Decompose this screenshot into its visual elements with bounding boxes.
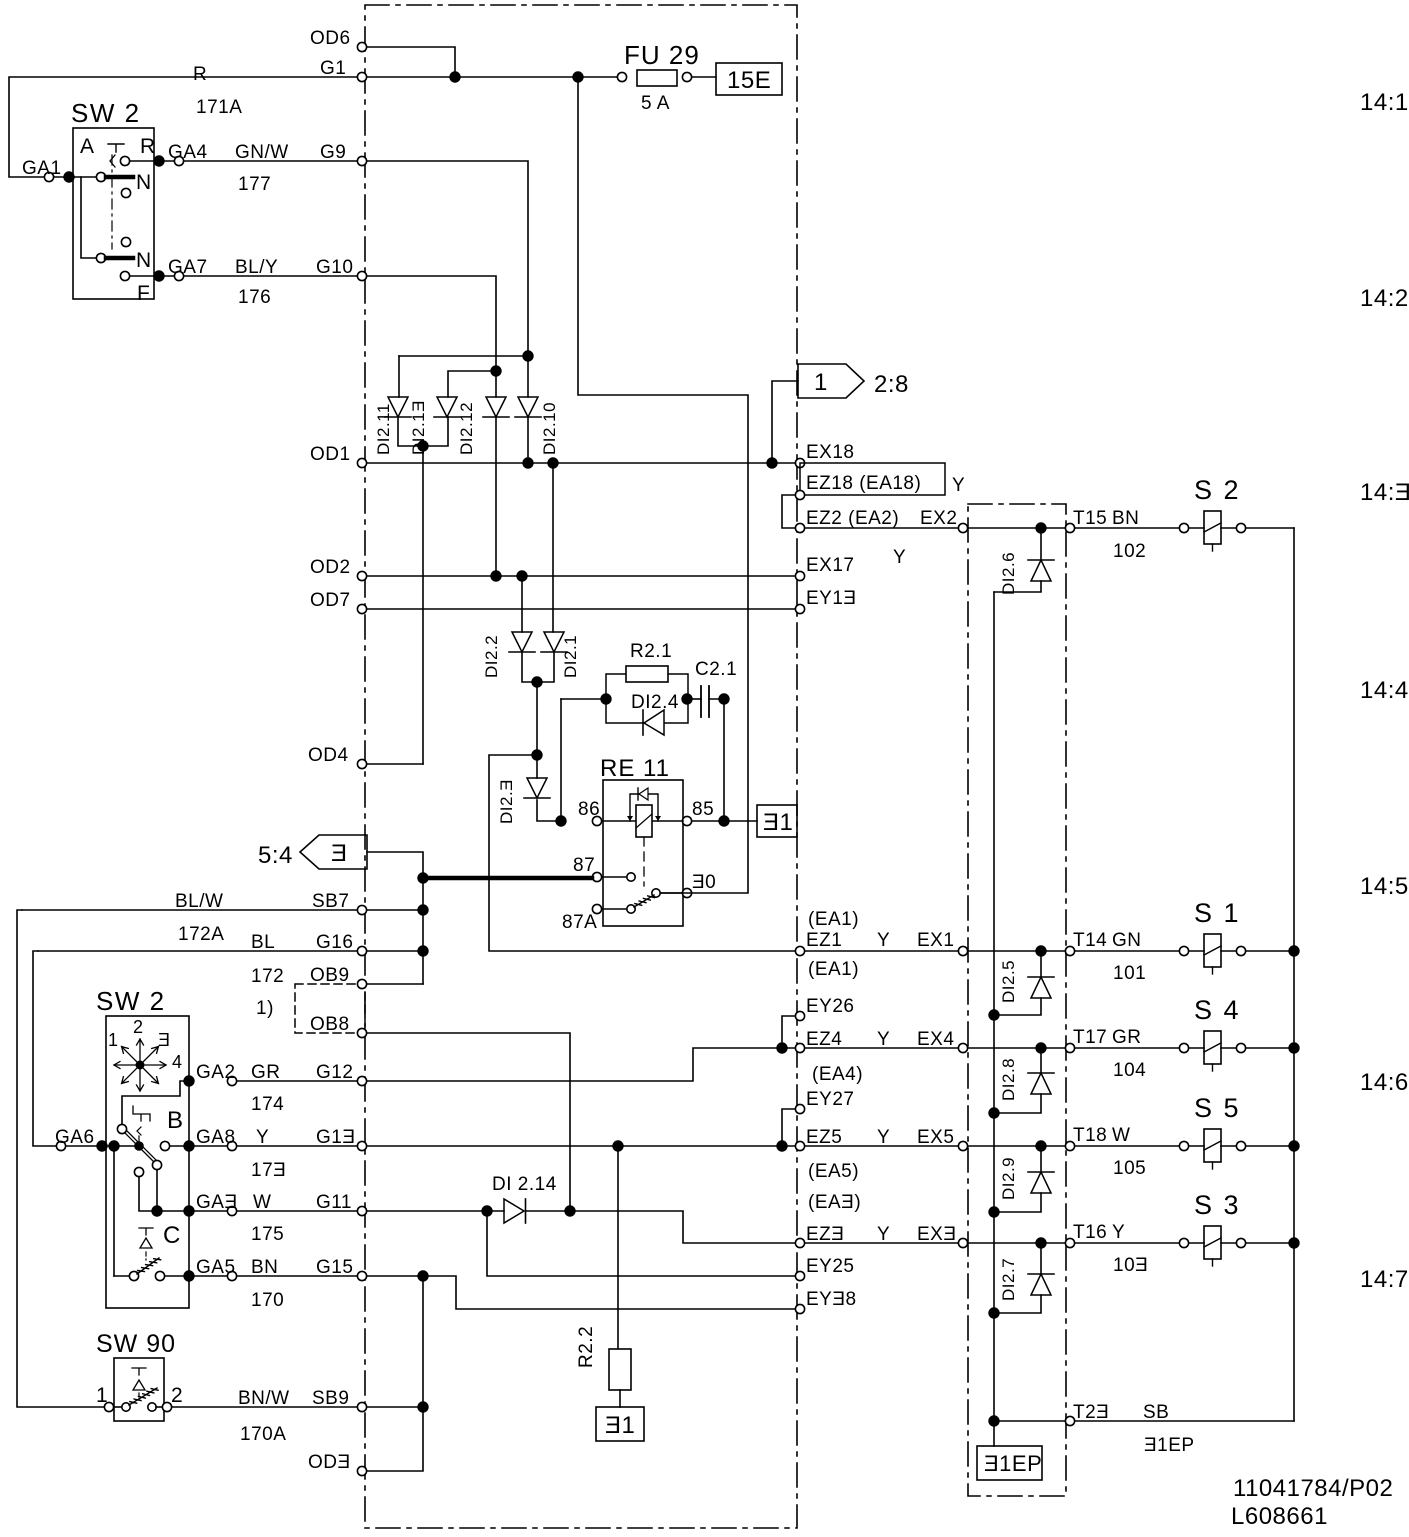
- SW2 B lever double line: [125, 1131, 157, 1163]
- solenoid S2 coil: [1204, 511, 1221, 544]
- terminal T15: [1065, 523, 1074, 532]
- wire S2 coil left lead: [1189, 527, 1204, 529]
- terminal EZ4: [795, 1043, 804, 1052]
- SW2 C thermal symbol: [139, 1228, 153, 1235]
- junction G13 R2.2 drop: [612, 1140, 623, 1151]
- svg-text:T15: T15: [1073, 508, 1107, 529]
- terminal GA1: [44, 172, 53, 181]
- wire S4 coil left lead: [1189, 1047, 1204, 1049]
- terminal GA6: [56, 1141, 65, 1150]
- wire branch to DI2.11: [399, 355, 528, 357]
- SW90 terminal 2: [162, 1402, 171, 1411]
- junction OD2/DI2.12: [490, 570, 501, 581]
- svg-text:BN/W: BN/W: [238, 1388, 290, 1409]
- wire G16 to bus: [367, 950, 418, 952]
- off-page flag 3 from 5:4: [300, 835, 367, 869]
- SW2 detent symbol: [108, 144, 124, 152]
- svg-text:T18: T18: [1073, 1125, 1107, 1146]
- wire S5 to return bus: [1246, 1145, 1294, 1147]
- svg-text:GR: GR: [1112, 1027, 1142, 1048]
- wire OD7 to EY13: [367, 608, 795, 610]
- wire SB9/OD3 riser: [367, 1276, 423, 1471]
- svg-text:OD7: OD7: [310, 590, 351, 611]
- svg-text:2:8: 2:8: [874, 371, 909, 398]
- SW90 fixed contact: [148, 1403, 156, 1411]
- svg-text:EX2: EX2: [920, 508, 957, 529]
- terminal SB7: [357, 905, 366, 914]
- wire R 171A from G1 to GA1: [9, 77, 357, 177]
- svg-text:87A: 87A: [562, 912, 597, 933]
- SW2 arrow: [110, 155, 115, 167]
- svg-text:11041784/P02: 11041784/P02: [1233, 1475, 1393, 1502]
- switch SW90 body: [114, 1358, 164, 1421]
- svg-text:(EA1): (EA1): [808, 959, 859, 980]
- wire 172A down to SW90: [17, 910, 104, 1407]
- junction RC cluster right: [681, 693, 692, 704]
- svg-text:EX18: EX18: [806, 442, 854, 463]
- junction 86 node: [555, 815, 566, 826]
- svg-text:A: A: [80, 135, 95, 158]
- relay actuator dashed link: [643, 837, 645, 886]
- svg-text:EXƎ: EXƎ: [917, 1224, 957, 1245]
- wire DI2.3 cathode to 86 node: [537, 800, 556, 821]
- junction return bus S4: [1288, 1042, 1299, 1053]
- relay RE11 body: [603, 780, 683, 926]
- SW2 B detent symbol: [133, 1106, 150, 1121]
- wire flag 1 tap: [772, 381, 798, 463]
- svg-text:Y: Y: [877, 1029, 890, 1050]
- svg-text:4: 4: [172, 1052, 183, 1072]
- SW2 internal wire GA1 to upper lever: [74, 176, 96, 178]
- SW90 internal wire: [114, 1406, 121, 1408]
- wire G16 external BL 172: [38, 950, 357, 952]
- wire EX to T S1: [968, 950, 1065, 952]
- diode DI 2.14: [504, 1199, 524, 1223]
- wire SB7 external BL/W 172A: [22, 909, 357, 911]
- svg-text:14:4: 14:4: [1360, 677, 1409, 704]
- svg-text:SB: SB: [1143, 1402, 1169, 1423]
- svg-text:EZ4: EZ4: [806, 1029, 842, 1050]
- fuse FU29 left terminal: [617, 72, 626, 81]
- svg-text:14:1: 14:1: [1360, 89, 1409, 116]
- svg-text:14:6: 14:6: [1360, 1069, 1409, 1096]
- svg-text:N: N: [136, 171, 152, 194]
- terminal EZ18: [795, 490, 804, 499]
- svg-text:DI2.11: DI2.11: [374, 403, 393, 455]
- solenoid S1 right terminal: [1236, 946, 1245, 955]
- junction bus SB7: [417, 904, 428, 915]
- wire DI2.6 cathode to bus: [994, 581, 1041, 592]
- supply box 15E: [716, 63, 782, 95]
- SW2 lever pivot upper: [96, 172, 105, 181]
- SW2 internal wire R to GA4: [130, 160, 174, 162]
- solenoid S5 left terminal: [1179, 1141, 1188, 1150]
- diode DI2.5: [1031, 977, 1051, 998]
- wire S4 coil right lead: [1221, 1047, 1236, 1049]
- junction GA2 at box edge: [183, 1075, 194, 1086]
- wire DI2.2/DI2.1 cathode loop: [522, 652, 554, 682]
- svg-text:BL/Y: BL/Y: [235, 257, 278, 278]
- wire G11 to DI2.14: [367, 1210, 504, 1212]
- wire EX to T S5: [968, 1145, 1065, 1147]
- svg-text:EZ2 (EA2): EZ2 (EA2): [806, 508, 899, 529]
- rotary position star: [114, 1039, 166, 1091]
- wire R2.2 to ground box: [619, 1390, 621, 1407]
- terminal EZ2: [795, 523, 804, 532]
- junction bus 87 feed: [417, 872, 428, 883]
- wire S1 to return bus: [1246, 950, 1294, 952]
- svg-text:172: 172: [251, 966, 284, 987]
- svg-text:GN/W: GN/W: [235, 142, 289, 163]
- wire S4 to return bus: [1246, 1047, 1294, 1049]
- wire T to solenoid S5: [1075, 1145, 1179, 1147]
- wire B lower contact down: [139, 1177, 152, 1211]
- svg-text:Ǝ1EP: Ǝ1EP: [984, 1451, 1042, 1476]
- svg-text:GN: GN: [1112, 930, 1142, 951]
- svg-text:EY25: EY25: [806, 1256, 854, 1277]
- relay terminal 87: [592, 872, 601, 881]
- diode DI2.7 leads: [994, 1243, 1041, 1313]
- wire DI2.6 anode lead: [1040, 533, 1042, 560]
- terminal EX S1: [958, 946, 967, 955]
- wire R2.2 drop: [617, 1146, 619, 1349]
- wire EY25 branch: [487, 1211, 795, 1276]
- wire EY26 jog: [782, 1016, 795, 1043]
- diode DI2.8: [1031, 1073, 1051, 1094]
- svg-text:171A: 171A: [196, 97, 242, 118]
- junction GA3 at box edge: [183, 1205, 194, 1216]
- svg-text:EX4: EX4: [917, 1029, 954, 1050]
- terminal G12: [357, 1076, 366, 1085]
- wire 86 node drop: [560, 699, 562, 816]
- junction DI2.6 tap: [1035, 522, 1046, 533]
- svg-text:BN: BN: [1112, 508, 1139, 529]
- svg-text:14:2: 14:2: [1360, 285, 1409, 312]
- wire T to solenoid S3: [1075, 1242, 1179, 1244]
- svg-text:SB9: SB9: [312, 1388, 349, 1409]
- junction ground bus DI2.5: [988, 1009, 999, 1020]
- wire B lever end down: [156, 1170, 158, 1211]
- junction G9 drop DI2.11 branch: [522, 350, 533, 361]
- svg-text:DI2.Ǝ: DI2.Ǝ: [497, 779, 516, 824]
- svg-text:G15: G15: [316, 1257, 353, 1278]
- wire W 175 GA3 to G11: [237, 1210, 357, 1212]
- wire branch to DI2.13: [448, 371, 496, 397]
- svg-text:101: 101: [1113, 963, 1146, 984]
- diode DI2.8 leads: [994, 1048, 1041, 1113]
- svg-text:EX1: EX1: [917, 930, 954, 951]
- svg-text:EZ1: EZ1: [806, 930, 842, 951]
- terminal G16: [357, 946, 366, 955]
- relay terminal 30: [682, 888, 691, 897]
- SW2 B lever end: [152, 1160, 161, 1169]
- svg-text:GA6: GA6: [55, 1127, 95, 1148]
- svg-text:T16: T16: [1073, 1222, 1107, 1243]
- svg-text:SB7: SB7: [312, 891, 349, 912]
- fuse FU29 right terminal: [682, 72, 691, 81]
- wire S3 to return bus: [1246, 1242, 1294, 1244]
- solenoid S5 coil: [1204, 1129, 1221, 1162]
- svg-text:W: W: [1112, 1125, 1130, 1146]
- svg-text:Ǝ0: Ǝ0: [692, 872, 716, 893]
- terminal EY13: [795, 604, 804, 613]
- svg-text:177: 177: [238, 174, 271, 195]
- svg-text:2: 2: [171, 1384, 183, 1407]
- wire G9 to DI2.10 drop: [367, 161, 528, 351]
- terminal OD7: [357, 604, 366, 613]
- wire Y 173 GA8 to G13: [237, 1145, 357, 1147]
- wire S2 to return bus: [1246, 527, 1294, 529]
- svg-text:17Ǝ: 17Ǝ: [251, 1160, 286, 1181]
- junction diode tap S1: [1035, 945, 1046, 956]
- terminal EY26: [795, 1011, 804, 1020]
- svg-text:EY26: EY26: [806, 996, 854, 1017]
- svg-text:L608661: L608661: [1231, 1503, 1328, 1530]
- junction GA4 at box edge: [153, 155, 164, 166]
- svg-text:(EA5): (EA5): [808, 1161, 859, 1182]
- svg-text:B: B: [167, 1107, 184, 1134]
- svg-text:Y: Y: [893, 547, 906, 568]
- SW2 lever lower closed to N: [106, 256, 133, 261]
- wire GR 174 GA2 to G12: [237, 1080, 357, 1082]
- relay 87 internal wire: [603, 876, 626, 878]
- svg-text:105: 105: [1113, 1158, 1146, 1179]
- terminal T16: [1065, 1238, 1074, 1247]
- relay suppression diode loop: [630, 794, 658, 821]
- wire fuse to 15E: [692, 76, 716, 78]
- solenoid S4 right terminal: [1236, 1043, 1245, 1052]
- terminal EX S4: [958, 1043, 967, 1052]
- relay coil lead arrows: [627, 816, 661, 821]
- wire DI2.3 anode lead: [536, 755, 538, 778]
- wire DI2.11 top lead: [398, 356, 400, 397]
- SW2 C fixed contact: [155, 1271, 164, 1280]
- junction diode tap S3: [1035, 1237, 1046, 1248]
- wire G13 to EZ5: [367, 1145, 795, 1147]
- SW2 internal wire F to GA7: [130, 275, 174, 277]
- svg-text:DI2.4: DI2.4: [631, 692, 679, 713]
- solenoid S4 coil: [1204, 1031, 1221, 1064]
- svg-text:DI2.6: DI2.6: [999, 552, 1018, 595]
- terminal GA4: [174, 156, 183, 165]
- svg-text:Y: Y: [1112, 1222, 1125, 1243]
- terminal T14: [1065, 946, 1074, 955]
- svg-text:14:Ǝ: 14:Ǝ: [1360, 479, 1409, 506]
- solenoid S2 right terminal: [1236, 523, 1245, 532]
- capacitor C2.1: [701, 686, 709, 717]
- wire OD4 riser: [422, 446, 424, 764]
- terminal EY38: [795, 1304, 804, 1313]
- svg-text:102: 102: [1113, 541, 1146, 562]
- wire GN/W 177 GA4 to G9: [184, 160, 357, 162]
- svg-text:R2.2: R2.2: [576, 1326, 597, 1368]
- relay internal 86-85 wire: [603, 820, 683, 822]
- wire DI2.12 cathode drop: [495, 417, 497, 576]
- wire SB7 to bus: [367, 909, 418, 911]
- ground box 31 for R2.2: [596, 1407, 644, 1441]
- junction EY26 EZ4: [776, 1042, 787, 1053]
- terminal G11: [357, 1206, 366, 1215]
- wire DI2.12 top lead: [495, 371, 497, 397]
- junction G1 relay-30 drop: [572, 71, 583, 82]
- svg-text:(EA1): (EA1): [808, 909, 859, 930]
- wire to DI2.3 node: [536, 682, 538, 755]
- terminal OD4: [357, 759, 366, 768]
- wire EZ to EX S4: [805, 1047, 958, 1049]
- wire 85 to 31 box: [692, 820, 757, 822]
- junction ground bus DI2.8: [988, 1107, 999, 1118]
- diode DI2.3: [527, 778, 547, 798]
- junction GA6 C branch: [108, 1140, 119, 1151]
- SW2 B moving contact: [134, 1141, 144, 1151]
- solenoid return bus: [1293, 528, 1295, 1421]
- wire B outputs to GA3: [162, 1210, 227, 1212]
- junction C2.1 tap: [718, 693, 729, 704]
- SW2 contact F: [120, 271, 129, 280]
- svg-text:Ǝ1: Ǝ1: [605, 1412, 635, 1439]
- svg-text:RE 11: RE 11: [600, 755, 670, 782]
- junction at SW2 entry: [63, 171, 74, 182]
- terminal EY27: [795, 1104, 804, 1113]
- svg-text:DI2.10: DI2.10: [540, 402, 559, 455]
- terminal T23: [1065, 1416, 1074, 1425]
- svg-text:OD6: OD6: [310, 28, 351, 49]
- terminal G13: [357, 1141, 366, 1150]
- terminal EZ3: [795, 1238, 804, 1247]
- wire cluster to C2.1: [692, 698, 701, 700]
- svg-text:10Ǝ: 10Ǝ: [1113, 1255, 1148, 1276]
- relay moving contact 87A-30: [634, 895, 655, 907]
- wire EY27 jog: [782, 1109, 795, 1141]
- junction OD2/DI2.2 drop: [516, 570, 527, 581]
- svg-text:176: 176: [238, 287, 271, 308]
- wire S3 coil right lead: [1221, 1242, 1236, 1244]
- svg-text:G12: G12: [316, 1062, 353, 1083]
- svg-text:EZ5: EZ5: [806, 1127, 842, 1148]
- svg-text:C: C: [163, 1222, 181, 1249]
- junction OD1 flag tap: [766, 457, 777, 468]
- SW2 contact above lower lever: [121, 237, 130, 246]
- terminal OB9: [357, 979, 366, 988]
- wire S5 coil right lead: [1221, 1145, 1236, 1147]
- relay terminal 85: [682, 816, 691, 825]
- svg-text:SW 90: SW 90: [96, 1330, 176, 1358]
- svg-text:1: 1: [814, 369, 828, 396]
- junction OD6/G1: [449, 71, 460, 82]
- ground box 31 relay: [757, 805, 797, 837]
- switch SW2 lower body: [106, 1016, 189, 1308]
- svg-text:87: 87: [573, 855, 595, 876]
- terminal T18: [1065, 1141, 1074, 1150]
- svg-text:Y: Y: [952, 475, 965, 496]
- wire S3 coil left lead: [1189, 1242, 1204, 1244]
- wire EZ1 branch: [489, 755, 795, 951]
- switch SW2 (A) body: [73, 128, 154, 299]
- wire SB9 to riser: [367, 1406, 418, 1408]
- wire EZ18 jog to EZ2: [782, 495, 795, 528]
- junction G10 drop DI2.13 branch: [490, 365, 501, 376]
- solenoid S1 coil: [1204, 934, 1221, 967]
- svg-text:GA5: GA5: [196, 1257, 236, 1278]
- svg-text:DI2.12: DI2.12: [457, 402, 476, 455]
- wire C2.1 tap to 85 node: [723, 699, 725, 816]
- svg-text:ODƎ: ODƎ: [308, 1452, 351, 1473]
- diode DI2.6: [1031, 560, 1051, 581]
- connector frame EZ18 (EA18): [800, 463, 945, 495]
- svg-text:14:5: 14:5: [1360, 873, 1409, 900]
- wire T to solenoid S4: [1075, 1047, 1179, 1049]
- wire S5 coil left lead: [1189, 1145, 1204, 1147]
- resistor R2.1: [626, 666, 668, 682]
- svg-text:S 2: S 2: [1194, 475, 1241, 505]
- wire GA1 junction into box: [54, 176, 74, 178]
- junction return bus S1: [1288, 945, 1299, 956]
- terminal EX S3: [958, 1238, 967, 1247]
- svg-text:FU 29: FU 29: [624, 40, 700, 70]
- wire GA2 to B pivot: [122, 1081, 189, 1124]
- junction diode tap S4: [1035, 1042, 1046, 1053]
- diode DI2.13: [437, 397, 457, 417]
- wire EZ to EX S1: [805, 950, 958, 952]
- junction G11 OB8: [564, 1205, 575, 1216]
- wire EZ to EX S5: [805, 1145, 958, 1147]
- wire relay 30 to fuse feed: [578, 77, 748, 893]
- relay terminal 86: [592, 816, 601, 825]
- wire DI2.10 top lead: [527, 356, 529, 397]
- diode DI2.1: [544, 632, 564, 652]
- wire DI2.14 to EZ3 jog: [526, 1211, 795, 1243]
- relay contact 87A: [627, 905, 635, 913]
- wire GA6 into switch: [66, 1145, 136, 1147]
- junction GA8 at box edge: [183, 1140, 194, 1151]
- svg-text:1: 1: [108, 1030, 119, 1050]
- wire 86 node to RC cluster: [561, 698, 601, 700]
- junction DI2.14 anode EY25 branch: [481, 1205, 492, 1216]
- junction 85/C2.1 tap: [718, 815, 729, 826]
- ground box 31EP: [977, 1446, 1042, 1480]
- terminal EX18: [795, 458, 804, 467]
- junction G15 SB9 drop: [417, 1270, 428, 1281]
- svg-text:DI 2.14: DI 2.14: [492, 1174, 557, 1195]
- svg-text:OB9: OB9: [310, 965, 350, 986]
- svg-text:G1: G1: [320, 58, 346, 79]
- solenoid S3 coil: [1204, 1226, 1221, 1259]
- terminal EZ5: [795, 1141, 804, 1150]
- SW2 contact below upper lever: [121, 188, 130, 197]
- SW90 terminal 1: [104, 1402, 113, 1411]
- svg-text:DI2.8: DI2.8: [999, 1058, 1018, 1101]
- svg-text:SW 2: SW 2: [71, 98, 141, 128]
- svg-text:GA2: GA2: [196, 1062, 236, 1083]
- wire S2 coil right lead: [1221, 527, 1236, 529]
- junction OD1/DI2.1 drop: [547, 457, 558, 468]
- terminal EX17: [795, 571, 804, 580]
- svg-text:14:7: 14:7: [1360, 1266, 1409, 1293]
- relay terminal 87A: [592, 904, 601, 913]
- svg-text:(EA4): (EA4): [812, 1064, 863, 1085]
- dashed option box around OB9/OB8: [295, 984, 365, 1033]
- wire S1 coil left lead: [1189, 950, 1204, 952]
- svg-text:Ǝ1EP: Ǝ1EP: [1144, 1435, 1195, 1456]
- wire EZ2 to EX2: [805, 527, 958, 529]
- diode DI2.2: [512, 632, 532, 652]
- terminal T17: [1065, 1043, 1074, 1052]
- svg-text:R: R: [140, 135, 156, 158]
- svg-text:Ǝ: Ǝ: [331, 840, 348, 867]
- solenoid S3 right terminal: [1236, 1238, 1245, 1247]
- svg-text:1: 1: [96, 1384, 108, 1407]
- solenoid S5 right terminal: [1236, 1141, 1245, 1150]
